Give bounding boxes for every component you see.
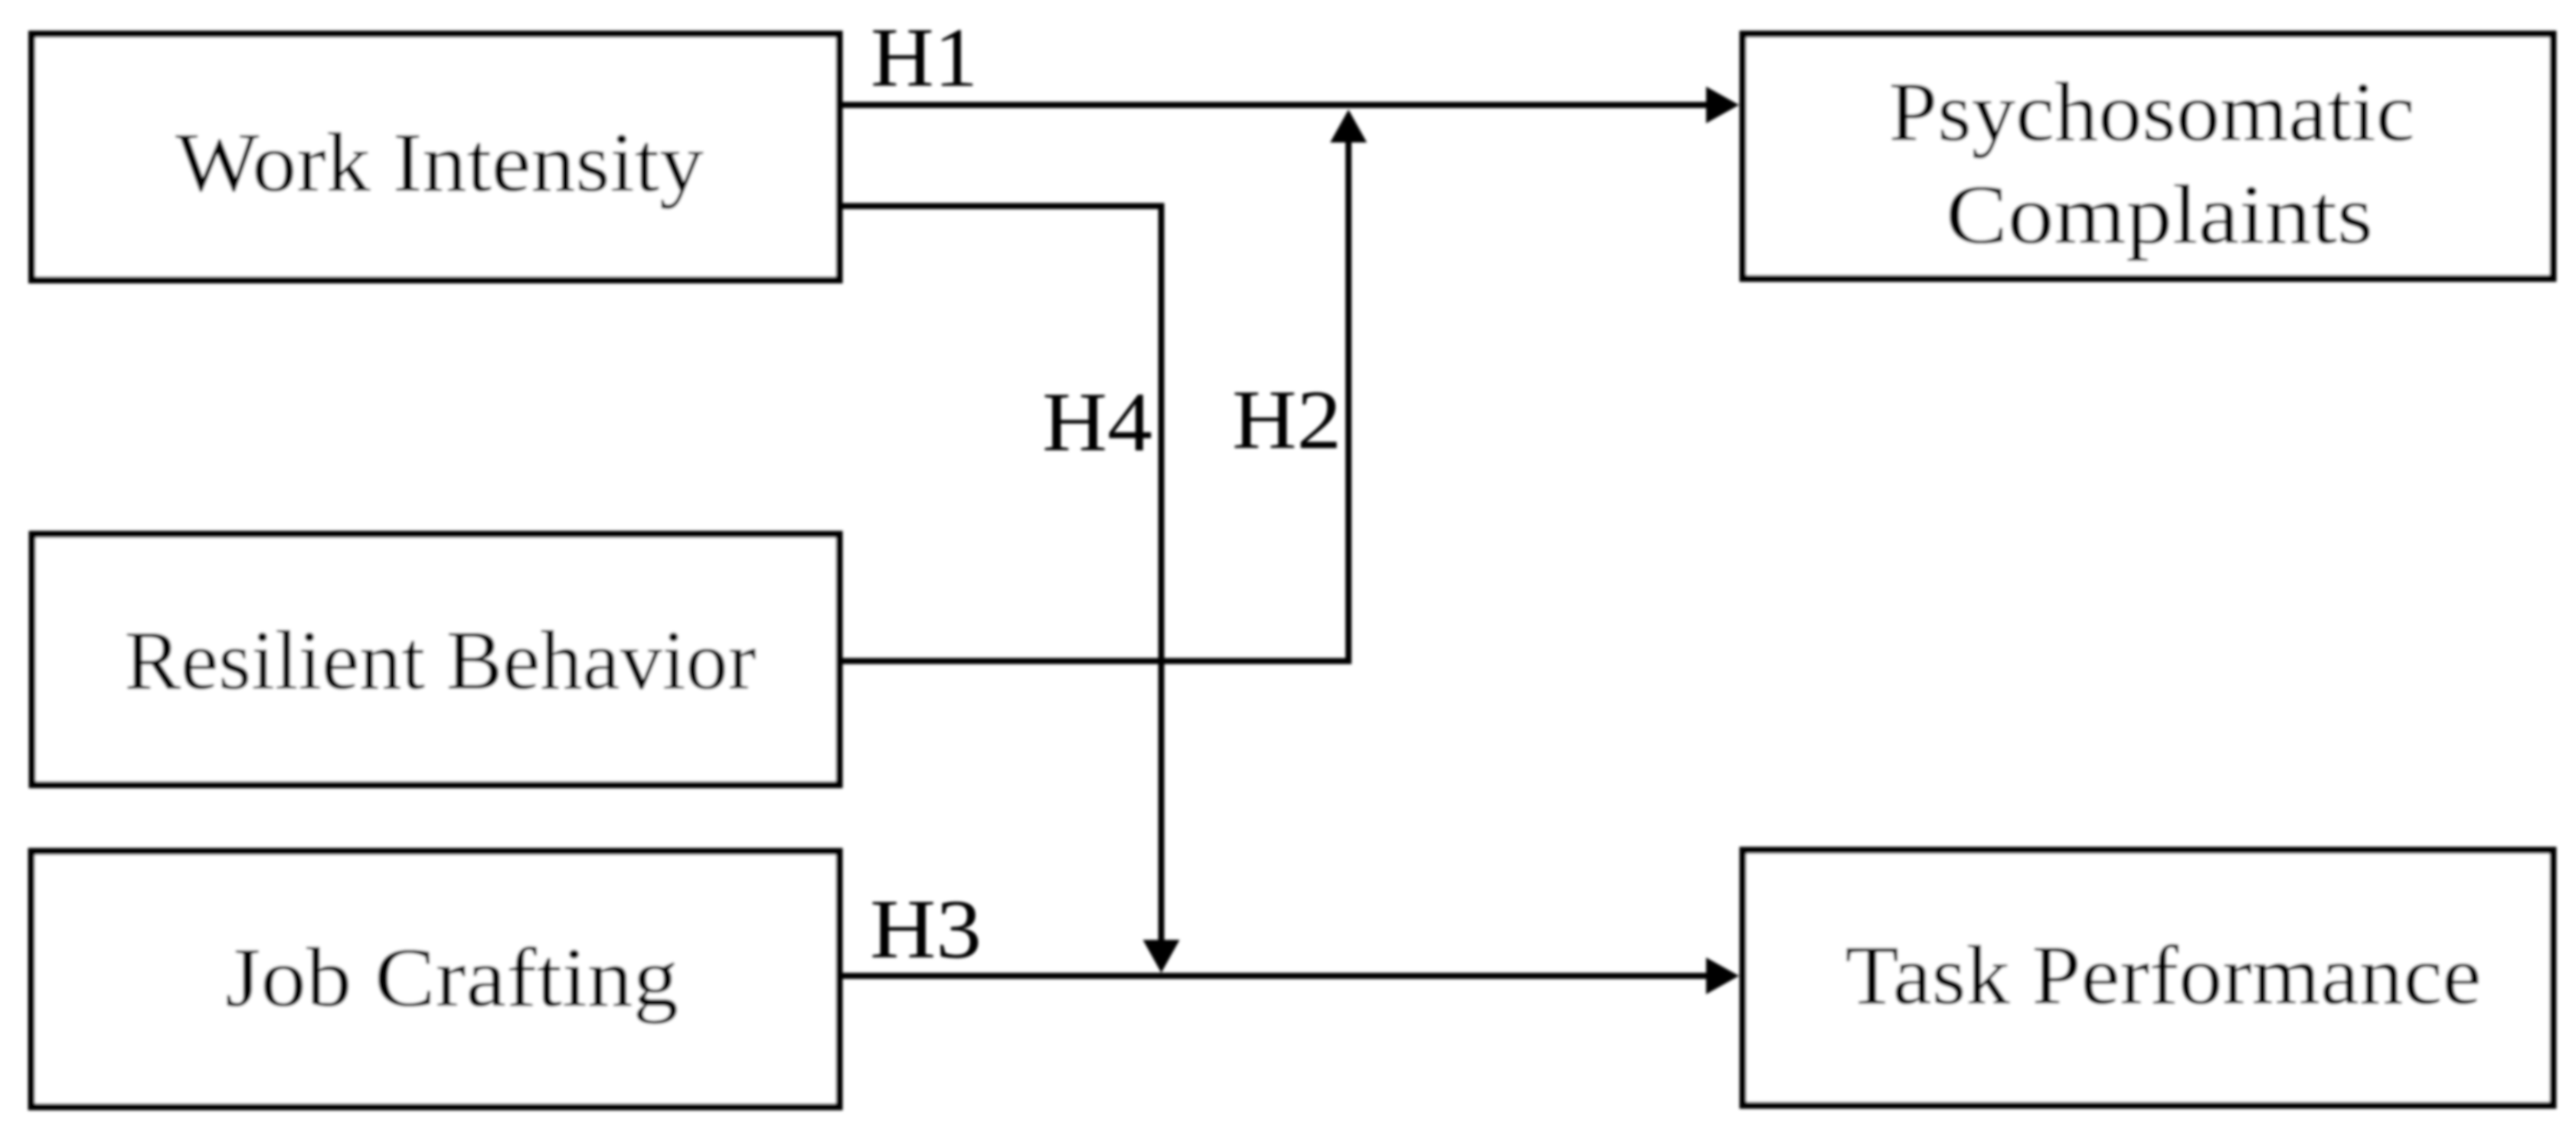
svg-text:Task Performance: Task Performance [1845,928,2482,1022]
svg-text:H2: H2 [1232,373,1342,466]
svg-text:Resilient Behavior: Resilient Behavior [125,614,757,707]
svg-text:H4: H4 [1042,375,1152,469]
box Job Crafting [31,852,839,1108]
arrow H4: Work Intensity down to H3 line [839,206,1180,973]
svg-text:Job Crafting: Job Crafting [225,931,678,1024]
arrow H2: Resilient Behavior up to H1 line [839,110,1367,661]
svg-text:Work Intensity: Work Intensity [175,116,704,209]
box Psychosomatic Complaints [1743,34,2553,279]
svg-text:Psychosomatic: Psychosomatic [1889,65,2415,159]
box Task Performance [1743,850,2553,1105]
arrow H3: Job Crafting to Task Performance [839,957,1739,994]
box Resilient Behavior [32,535,839,785]
svg-text:H3: H3 [870,882,982,976]
svg-text:Complaints: Complaints [1946,168,2373,261]
arrow H1: Work Intensity to Psychosomatic Complaints [839,87,1739,123]
svg-text:H1: H1 [871,11,978,104]
box Work Intensity [32,34,840,280]
